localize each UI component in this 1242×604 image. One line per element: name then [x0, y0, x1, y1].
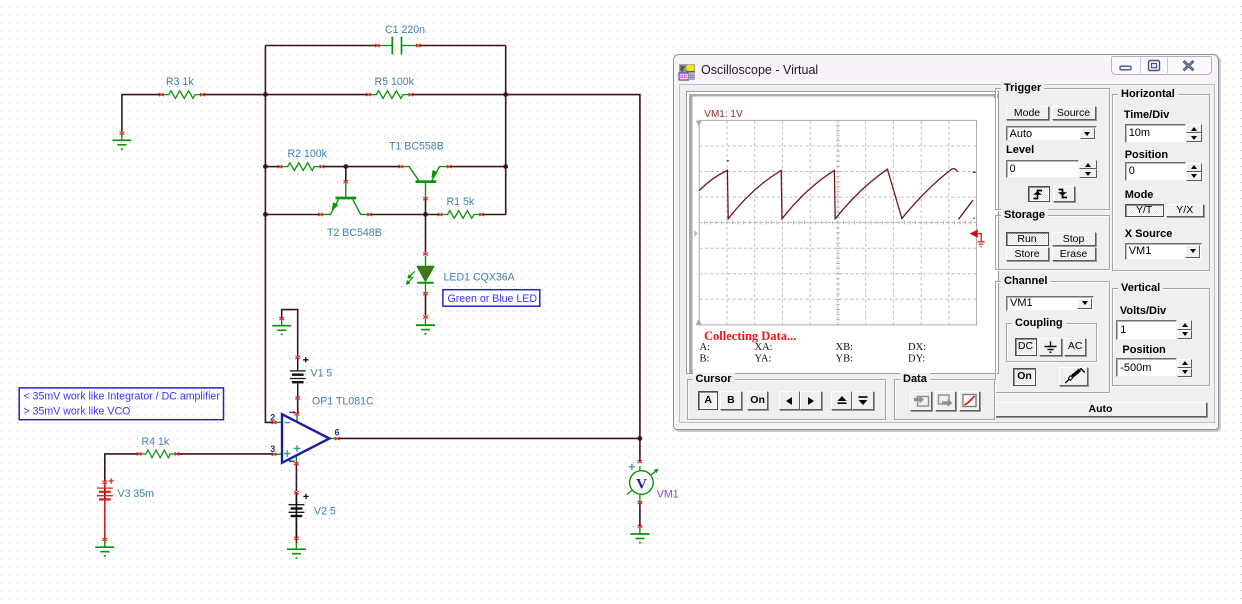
battery V2: [289, 494, 309, 539]
pin marker V1 minus: [295, 397, 300, 400]
wire right vertical (C1/R5/R1 net): [505, 46, 507, 215]
junction node R5/right vertical: [503, 92, 508, 97]
pin marker op-amp Vplus: [295, 413, 300, 416]
pin marker V2 ground: [294, 537, 299, 540]
wire T1 emitter to right vertical: [449, 166, 505, 168]
ground LED1: [416, 318, 435, 333]
wire V1 minus to op-amp V+: [297, 399, 299, 413]
svg-text:2: 2: [270, 412, 275, 422]
pin marker VM1 plus: [638, 460, 643, 463]
pin marker R1 right: [479, 213, 484, 216]
trigger marker: [970, 229, 985, 246]
junction node R2/left bus: [263, 164, 268, 169]
pin marker V1 ground: [279, 317, 284, 320]
ground VM1: [630, 527, 649, 542]
wire T2 base vertical: [345, 167, 347, 182]
wire bottom row middle: [370, 214, 440, 216]
svg-text:XA:: XA:: [755, 342, 773, 353]
pin marker op-amp Vminus: [294, 462, 299, 465]
svg-text:R5 100k: R5 100k: [375, 76, 415, 88]
transistor T2: [321, 183, 370, 214]
svg-text:V1 5: V1 5: [311, 368, 333, 380]
LED LED1: [406, 256, 433, 293]
pin marker LED ground: [423, 316, 428, 319]
pin marker V3 ground: [102, 538, 107, 541]
svg-text:YA:: YA:: [755, 353, 772, 364]
wire left vertical bus: [265, 46, 273, 423]
junction node T1 base/LED: [423, 212, 428, 217]
wire R2 row left: [265, 166, 280, 168]
pin marker T2 emitter: [318, 213, 323, 216]
wire V2 minus to ground: [295, 494, 297, 543]
svg-text:V2 5: V2 5: [314, 506, 336, 518]
pin marker R3 ground: [120, 132, 125, 135]
pin marker T2 base: [343, 180, 348, 183]
wire R4 row left: [105, 454, 139, 481]
pin marker op-amp pin2: [272, 421, 277, 424]
pin marker C1 left: [375, 44, 380, 47]
pin marker T1 base: [423, 197, 428, 200]
wire VM1 feed: [639, 438, 641, 461]
junction node bottom row/left bus: [263, 212, 268, 217]
svg-text:VM1: 1V: VM1: 1V: [704, 109, 743, 120]
svg-text:DX:: DX:: [908, 342, 926, 353]
junction node R3/R5/left bus: [263, 92, 268, 97]
pin marker LED anode: [423, 253, 428, 256]
ground R3: [112, 134, 131, 149]
transistor T1: [401, 167, 450, 198]
Storage group: [995, 215, 1110, 270]
resistor R2: [280, 163, 322, 171]
svg-text:C1 220n: C1 220n: [385, 24, 425, 36]
wire R2 to T2 base node: [322, 166, 401, 168]
Trigger group (body-local: page minus (681,86)): [995, 88, 1110, 210]
wire C1 top-right segment: [419, 45, 506, 47]
ground V1: [272, 319, 291, 334]
wire R3-R5 row: [202, 94, 368, 96]
svg-text:LED1 CQX36A: LED1 CQX36A: [444, 272, 516, 284]
Channel group: [995, 281, 1110, 393]
junction node T2 base: [343, 164, 348, 169]
pin marker R1 left: [438, 213, 443, 216]
svg-text:V3 35m: V3 35m: [118, 488, 155, 500]
Auto button: [995, 402, 1207, 417]
svg-text:> 35mV work like VCO: > 35mV work like VCO: [24, 405, 131, 417]
ground V3: [95, 541, 114, 556]
svg-text:< 35mV work like Integrator /: < 35mV work like Integrator / DC amplifi…: [24, 390, 221, 402]
pin marker VM1 ground: [638, 525, 643, 528]
capacitor C1: [377, 37, 418, 55]
junction node output/VM1: [638, 436, 643, 441]
wire node to LED anode: [425, 215, 427, 253]
voltmeter VM1: [627, 464, 659, 502]
Vertical group: [1112, 288, 1210, 386]
wire bottom row right: [482, 214, 506, 216]
resistor R4: [139, 450, 177, 458]
svg-text:V: V: [636, 477, 647, 493]
Data group: [894, 379, 995, 420]
annotation box 35mV note: [19, 388, 223, 420]
wire V3 minus to ground: [104, 483, 106, 538]
Horizontal group: [1112, 94, 1210, 271]
wire bottom row left: [265, 214, 320, 216]
wire LED cathode to ground: [425, 295, 427, 316]
scope display panel; body-local coords: body origin at (679,84): [686, 91, 999, 374]
svg-text:R2 100k: R2 100k: [288, 148, 328, 160]
svg-text:A:: A:: [700, 342, 711, 353]
svg-text:R3 1k: R3 1k: [166, 76, 194, 88]
pin marker T2 collector: [367, 213, 372, 216]
wire VM1 to ground: [639, 503, 641, 527]
pin marker T1 emitter: [447, 165, 452, 168]
svg-text:T1 BC558B: T1 BC558B: [389, 141, 444, 153]
pin marker op-amp pin3: [272, 453, 277, 456]
markers: [696, 121, 702, 127]
wire R3 to ground drop: [122, 95, 161, 132]
resistor R3: [161, 91, 203, 99]
wire R4 to op-amp pin3: [177, 453, 273, 455]
pin marker R4 right: [175, 452, 180, 455]
pin marker V1 plus: [295, 356, 300, 359]
svg-text:3: 3: [270, 444, 275, 454]
pin marker op-amp pin6: [335, 437, 340, 440]
pin marker V2 plus: [294, 491, 299, 494]
svg-text:VM1: VM1: [657, 489, 679, 501]
pin marker R2 right: [320, 165, 325, 168]
pin marker C1 right: [416, 44, 421, 47]
pin marker VM1 minus: [638, 501, 643, 504]
wire R5 to right output column: [411, 95, 640, 439]
ground V2: [287, 543, 306, 558]
pin marker R4 left: [137, 452, 142, 455]
wire C1 top-left segment: [265, 45, 377, 47]
resistor R1: [440, 211, 482, 219]
svg-text:6: 6: [334, 427, 339, 437]
pin marker R5 left: [366, 93, 371, 96]
pin marker R3 right: [200, 93, 205, 96]
wire T1 base down to bottom row: [425, 199, 427, 214]
resistor R5: [369, 91, 411, 99]
svg-text:R1 5k: R1 5k: [447, 196, 475, 208]
svg-text:T2 BC548B: T2 BC548B: [327, 227, 382, 239]
wire op-amp V- to V2: [295, 465, 297, 492]
svg-text:OP1 TL081C: OP1 TL081C: [312, 396, 374, 408]
junction node T1 emitter/right vertical: [503, 164, 508, 169]
svg-text:B:: B:: [700, 353, 710, 364]
svg-text:DY:: DY:: [908, 353, 925, 364]
pin marker LED cathode: [423, 292, 428, 295]
svg-text:YB:: YB:: [836, 353, 854, 364]
pin marker V3 plus: [102, 481, 107, 484]
op-amp OP1: [273, 411, 337, 464]
wire op-amp output to VM1 column: [338, 437, 640, 439]
svg-text:R4 1k: R4 1k: [142, 436, 170, 448]
svg-text:XB:: XB:: [836, 342, 854, 353]
waveform: [699, 160, 975, 220]
svg-text:Collecting Data...: Collecting Data...: [704, 329, 796, 343]
Cursor group: [687, 379, 887, 420]
pin marker R3 left: [159, 93, 164, 96]
pin marker T1 collector: [398, 165, 403, 168]
pin marker R5 right: [409, 93, 414, 96]
annotation box Green or Blue LED: [443, 290, 540, 307]
battery V1: [290, 357, 309, 397]
svg-text:Green or Blue LED: Green or Blue LED: [448, 293, 538, 305]
wire V1 ground jog: [282, 310, 298, 357]
pin marker R2 left: [278, 165, 283, 168]
battery V3: [97, 478, 114, 539]
